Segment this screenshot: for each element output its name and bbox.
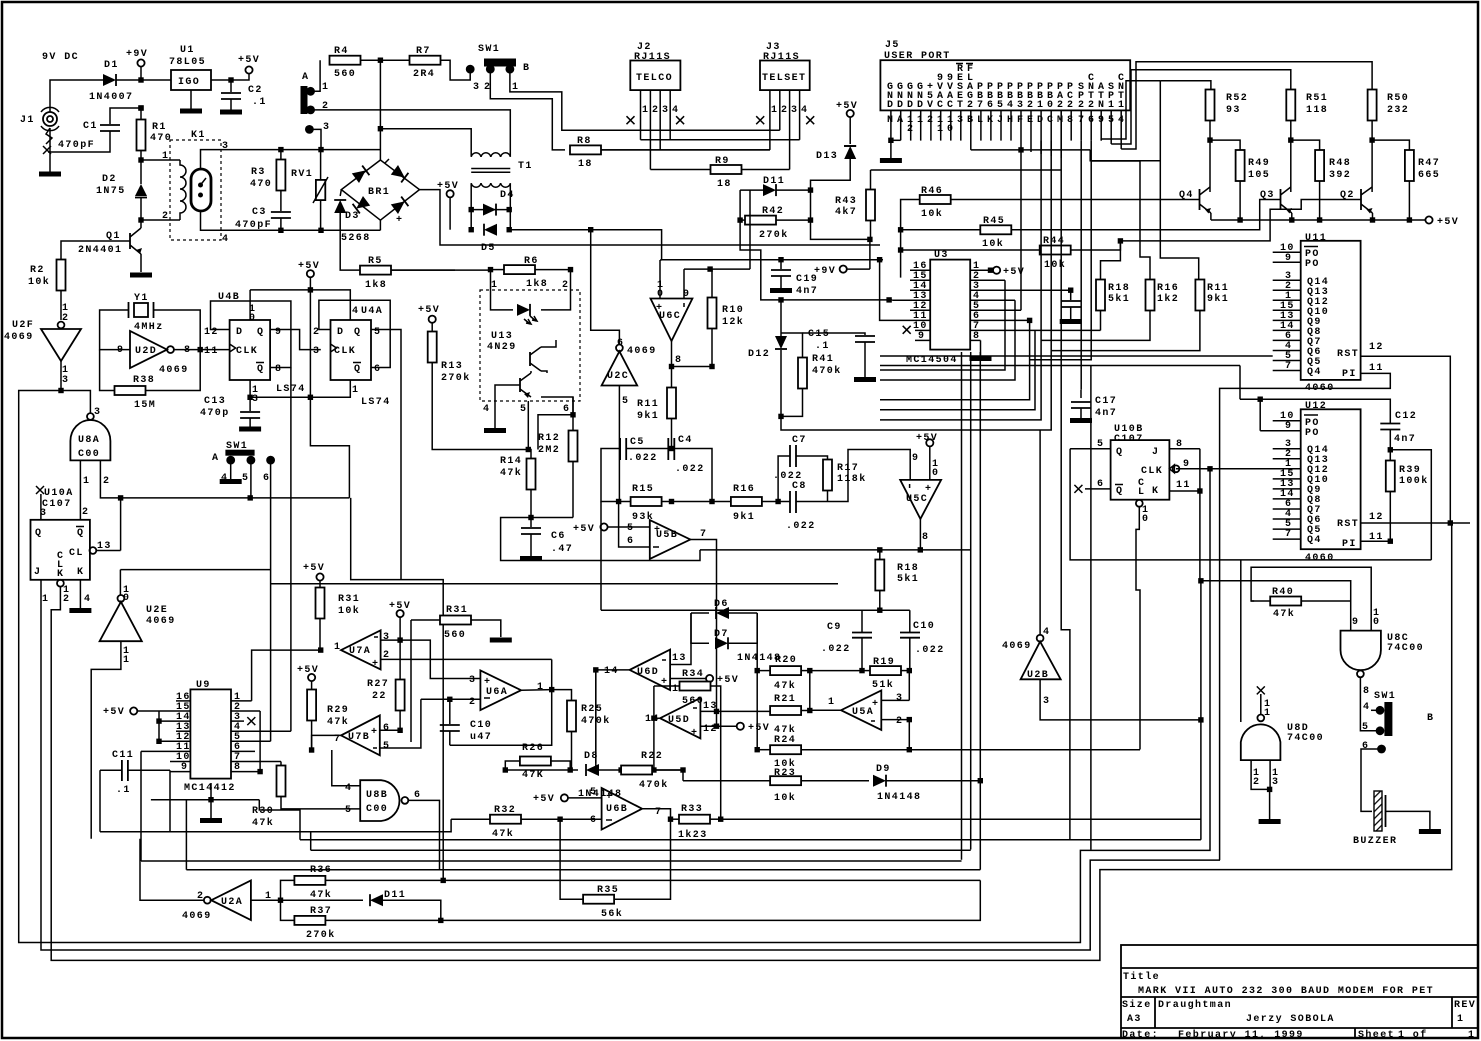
diode D1 — [89, 60, 133, 103]
U6D output — [596, 670, 630, 770]
svg-text:9: 9 — [1183, 459, 1190, 470]
capacitor C10 u47 — [440, 699, 492, 745]
U3 right pins — [970, 270, 1100, 340]
svg-text:470: 470 — [150, 133, 172, 144]
resistor R2 — [28, 260, 66, 321]
resistor R20 — [755, 613, 810, 692]
svg-text:CLK: CLK — [236, 346, 258, 357]
svg-text:2: 2 — [1057, 100, 1064, 111]
voltage regulator U1 78L05 — [169, 45, 211, 90]
U2A in wire — [251, 899, 281, 901]
svg-text:3: 3 — [222, 141, 229, 152]
svg-text:1: 1 — [42, 594, 49, 605]
diode D13 — [811, 117, 857, 190]
R22/R23 junction — [654, 770, 683, 781]
svg-text:.022: .022 — [821, 644, 851, 655]
svg-text:U2B: U2B — [1027, 670, 1049, 681]
junction D1 node to C1 — [138, 105, 143, 110]
nand U8C (points down) — [1341, 608, 1425, 697]
svg-text:C12: C12 — [1395, 411, 1417, 422]
svg-text:.022: .022 — [915, 645, 945, 656]
U9 pin8 junction — [257, 769, 262, 774]
filter row 610 — [601, 609, 910, 611]
svg-text:+5V: +5V — [418, 305, 440, 316]
svg-text:1N75: 1N75 — [96, 186, 126, 197]
svg-text:MC14412: MC14412 — [184, 783, 236, 794]
transistor Q3 — [1260, 140, 1292, 220]
svg-text:RST: RST — [1337, 349, 1359, 360]
svg-text:+5V: +5V — [573, 524, 595, 535]
U4A D-Qbar loop — [319, 300, 390, 367]
svg-text:2M2: 2M2 — [538, 445, 560, 456]
wire D5 row to U2C — [509, 229, 591, 231]
svg-text:1: 1 — [1118, 100, 1125, 111]
wire U2F out down — [60, 361, 62, 391]
U4B pin10 wire — [249, 290, 251, 320]
svg-text:22: 22 — [372, 691, 387, 702]
svg-text:Q: Q — [35, 528, 42, 539]
D12 bottom row — [781, 416, 880, 430]
wire to T1 primary — [380, 129, 471, 157]
U10B pin5 — [1070, 439, 1111, 450]
J5 bus wiring right — [971, 149, 1021, 151]
relay K1 coil — [180, 160, 186, 220]
diode D11 bottom — [281, 890, 444, 923]
svg-text:1: 1 — [334, 642, 341, 653]
U10A J/CLK bus verticals already drawn; add x20,x37.5 risers content above — [18, 390, 20, 392]
op-amp U6A — [469, 670, 544, 710]
svg-text:2: 2 — [967, 100, 974, 111]
node U2F out / U8A — [58, 388, 63, 393]
svg-text:4N29: 4N29 — [487, 342, 517, 353]
svg-text:U13: U13 — [491, 331, 513, 342]
svg-text:9: 9 — [117, 345, 124, 356]
bridge BR1 — [341, 159, 419, 226]
U10A pin1 J down (left bus) — [41, 580, 1220, 950]
svg-text:R16: R16 — [733, 484, 755, 495]
svg-text:1: 1 — [352, 385, 359, 396]
emitter rail +5V — [1211, 216, 1459, 228]
svg-text:R8: R8 — [577, 136, 592, 147]
svg-text:C7: C7 — [792, 435, 807, 446]
U2B out wire — [1040, 679, 1201, 720]
R37 row continue — [441, 880, 981, 920]
svg-text:1: 1 — [491, 280, 498, 291]
U10A CLK bubble pin12 — [51, 523, 1452, 960]
U13 LED — [517, 304, 537, 324]
svg-text:4n7: 4n7 — [796, 286, 818, 297]
junction D2 bottom — [138, 217, 143, 222]
resistor R22 — [621, 751, 683, 791]
U2B pin4 wire up — [1039, 430, 1041, 635]
flip-flop U4B — [204, 292, 282, 405]
svg-text:2: 2 — [1078, 100, 1085, 111]
svg-text:R9: R9 — [715, 156, 730, 167]
svg-text:8: 8 — [234, 762, 241, 773]
resistor R23 — [680, 767, 869, 804]
resistor R27 — [367, 640, 405, 730]
svg-text:L: L — [1138, 487, 1145, 498]
svg-text:U2E: U2E — [146, 605, 168, 616]
svg-text:8: 8 — [973, 331, 980, 342]
svg-text:PO: PO — [1305, 428, 1320, 439]
svg-text:1: 1 — [123, 655, 130, 666]
svg-text:A: A — [897, 115, 904, 126]
svg-text:3: 3 — [662, 105, 669, 116]
svg-text:1N4148: 1N4148 — [877, 792, 921, 803]
bus rows mid right — [880, 356, 1273, 399]
svg-text:C17: C17 — [1095, 396, 1117, 407]
U5B pin6 wire — [619, 502, 650, 548]
svg-text:8: 8 — [1176, 439, 1183, 450]
svg-text:2: 2 — [907, 124, 914, 135]
ground under U1 — [180, 90, 202, 111]
U9 pin3 nc — [247, 717, 255, 725]
svg-text:9: 9 — [918, 331, 925, 342]
+5V terminal R13 — [418, 305, 440, 323]
nc on J1 — [43, 146, 51, 154]
svg-text:2: 2 — [82, 507, 89, 518]
svg-text:C10: C10 — [470, 720, 492, 731]
oscillator loop wires — [100, 310, 130, 350]
svg-text:D: D — [907, 100, 914, 111]
svg-text:K: K — [987, 115, 994, 126]
R32 left wire — [100, 770, 451, 831]
node +9V junction — [138, 77, 143, 82]
diode D2 — [96, 160, 147, 220]
svg-text:1: 1 — [162, 151, 169, 162]
svg-text:9V DC: 9V DC — [42, 52, 79, 63]
svg-text:5: 5 — [997, 100, 1004, 111]
svg-text:R35: R35 — [597, 885, 619, 896]
svg-text:+: + — [606, 792, 613, 803]
op-amp U6B — [590, 787, 662, 830]
title block — [1121, 945, 1478, 1041]
U6C pin9 wire up — [684, 190, 750, 300]
svg-text:5: 5 — [627, 523, 634, 534]
SW1B pin2 dot — [484, 65, 495, 93]
svg-text:C: C — [937, 100, 944, 111]
+5V terminal U9 — [103, 707, 162, 744]
svg-text:D13: D13 — [816, 151, 838, 162]
svg-text:2: 2 — [896, 716, 903, 727]
diode D6 — [691, 599, 757, 619]
svg-text:15M: 15M — [134, 400, 156, 411]
svg-text:+5V: +5V — [748, 723, 770, 734]
vertical buses right — [1200, 581, 1202, 840]
diode D12 — [748, 297, 787, 416]
svg-text:9: 9 — [275, 327, 282, 338]
nand U8B — [345, 780, 421, 821]
resistor R18 5k1 b — [875, 547, 919, 610]
U13 pin4 ground — [483, 401, 506, 431]
svg-text:+: + — [872, 699, 879, 710]
svg-text:4069: 4069 — [146, 616, 176, 627]
C4 bottom tie — [674, 449, 712, 502]
svg-text:1: 1 — [1468, 1030, 1475, 1041]
svg-text:R42: R42 — [762, 206, 784, 217]
resistor R45 — [898, 216, 1011, 250]
svg-text:47k: 47k — [310, 889, 332, 901]
wire pin3 row to RV1 — [321, 149, 380, 151]
svg-text:CLK: CLK — [1141, 466, 1163, 477]
resistor R31 10k — [316, 581, 361, 651]
svg-text:100k: 100k — [1399, 475, 1429, 487]
svg-text:2: 2 — [562, 280, 569, 291]
svg-text:C8: C8 — [792, 481, 807, 492]
op-amp U5B — [627, 520, 707, 559]
svg-text:R4: R4 — [334, 46, 349, 57]
svg-text:D: D — [236, 327, 243, 338]
R43 top wire — [871, 169, 1062, 171]
wire Q1 base to R2 — [61, 241, 130, 259]
svg-text:.022: .022 — [675, 464, 705, 475]
diode D7 — [691, 613, 781, 664]
U13 pin6 wire — [563, 397, 576, 417]
+5V terminal U5B — [573, 523, 650, 535]
BR1 bottom wire — [379, 220, 381, 230]
svg-text:10k: 10k — [1044, 259, 1066, 271]
U8A pin1 wire — [79, 460, 81, 519]
svg-text:105: 105 — [1248, 170, 1270, 181]
SW1A pin6 — [263, 456, 275, 742]
U4A Q out down — [371, 330, 401, 580]
svg-text:7: 7 — [1078, 115, 1085, 126]
capacitor C15 — [803, 329, 877, 380]
svg-text:1: 1 — [1457, 1014, 1464, 1025]
vertical x380 R4 node down — [379, 60, 381, 129]
svg-text:10k: 10k — [921, 208, 943, 220]
svg-text:J: J — [34, 567, 41, 578]
svg-text:U6D: U6D — [637, 667, 659, 678]
inverter U2C — [591, 230, 657, 407]
svg-text:4: 4 — [1007, 100, 1014, 111]
svg-text:U12: U12 — [1305, 401, 1327, 412]
svg-text:D: D — [887, 100, 894, 111]
column 601 down — [600, 502, 602, 611]
svg-text:2R4: 2R4 — [413, 69, 435, 80]
svg-text:7: 7 — [977, 100, 984, 111]
svg-text:470: 470 — [250, 179, 272, 190]
svg-text:+5V: +5V — [297, 665, 319, 676]
svg-text:D6: D6 — [714, 599, 729, 610]
resistor R18 5k1 — [1096, 238, 1130, 330]
capacitor C3 — [235, 207, 291, 233]
svg-text:R7: R7 — [416, 46, 431, 57]
decoupling cap U3 — [1060, 288, 1082, 322]
svg-text:N: N — [887, 115, 894, 126]
junction R14 bottom — [528, 515, 533, 520]
U6C out down — [671, 341, 673, 388]
svg-text:U2D: U2D — [135, 346, 157, 357]
svg-text:R1: R1 — [152, 122, 167, 133]
svg-text:D2: D2 — [102, 174, 117, 185]
U10A K pin4 ground — [69, 580, 91, 611]
R5 wire right — [391, 269, 491, 271]
resistor R47 — [1372, 140, 1440, 220]
svg-text:2: 2 — [1253, 777, 1260, 788]
capacitor C7 — [773, 435, 828, 502]
resistor R44 — [898, 236, 1121, 271]
svg-text:51k: 51k — [872, 679, 894, 691]
resistor R38 — [100, 350, 201, 411]
wire CL vertical to U2E — [120, 498, 122, 551]
U9 left pins — [141, 701, 190, 772]
svg-text:C00: C00 — [366, 804, 388, 815]
svg-text:7: 7 — [1285, 361, 1292, 372]
U8A pin2 wire — [100, 460, 120, 498]
svg-text:6: 6 — [414, 790, 421, 801]
resistor R26 — [505, 743, 570, 781]
R17/C8 node to U5C — [828, 450, 911, 502]
svg-text:R24: R24 — [774, 735, 796, 746]
connector J1 — [20, 107, 59, 144]
C10 bottom tie — [450, 690, 552, 746]
svg-text:47k: 47k — [774, 680, 796, 692]
svg-text:+5V: +5V — [916, 433, 938, 444]
svg-text:5: 5 — [590, 787, 597, 798]
svg-text:3: 3 — [1272, 777, 1279, 788]
op-amp U5C — [900, 453, 941, 543]
svg-text:6: 6 — [1097, 479, 1104, 490]
svg-text:12: 12 — [1369, 342, 1384, 353]
svg-text:6: 6 — [987, 100, 994, 111]
svg-text:4MHz: 4MHz — [134, 322, 164, 333]
inverter U2A (points left) — [182, 881, 272, 923]
svg-text:.022: .022 — [786, 521, 816, 532]
junction at C2 — [228, 77, 233, 82]
U8D nc out — [1257, 686, 1272, 719]
svg-text:R51: R51 — [1306, 93, 1328, 104]
svg-text:CLK: CLK — [334, 346, 356, 357]
svg-text:F: F — [1017, 115, 1024, 126]
svg-text:E: E — [1027, 115, 1034, 126]
U10A labels — [36, 486, 74, 520]
svg-text:U7A: U7A — [349, 646, 371, 657]
wire J1 to D1 — [50, 80, 104, 112]
svg-text:470pF: 470pF — [58, 140, 95, 151]
svg-text:R34: R34 — [682, 669, 704, 680]
svg-text:9k1: 9k1 — [733, 511, 755, 523]
U3 left pins — [892, 270, 930, 340]
svg-text:K: K — [1152, 486, 1159, 497]
svg-text:K: K — [77, 567, 84, 578]
SW1B2 pin6 dot — [1362, 741, 1386, 753]
svg-text:B: B — [523, 63, 530, 74]
svg-text:9: 9 — [1285, 421, 1292, 432]
svg-text:D8: D8 — [584, 751, 599, 762]
svg-text:R10: R10 — [722, 305, 744, 316]
svg-text:1k2: 1k2 — [1157, 293, 1179, 305]
wire D1 to U1 — [116, 79, 171, 81]
svg-text:4: 4 — [801, 105, 808, 116]
svg-text:4069: 4069 — [182, 911, 212, 922]
svg-text:R5: R5 — [368, 256, 383, 267]
svg-text:1k8: 1k8 — [526, 278, 548, 290]
ground J1 — [39, 128, 61, 174]
U11 pins — [1273, 252, 1301, 370]
svg-text:RJ11S: RJ11S — [634, 52, 671, 63]
resistor R13 — [428, 323, 529, 450]
svg-text:C00: C00 — [78, 449, 100, 460]
resistor R37 — [281, 900, 441, 941]
svg-text:N: N — [1098, 100, 1105, 111]
U9 pin1 wire to U7A — [252, 650, 321, 701]
svg-text:5: 5 — [1362, 722, 1369, 733]
U3 pin1 +5V — [988, 267, 1025, 278]
svg-text:11: 11 — [1369, 363, 1384, 374]
switch SW1 A lower — [212, 441, 255, 464]
connector J3 RJ11S — [760, 42, 810, 90]
U5D pin12 — [700, 711, 770, 734]
diode D11 — [740, 176, 810, 196]
capacitor C12 — [1380, 411, 1417, 450]
svg-text:.1: .1 — [815, 341, 830, 352]
ground Q1 — [130, 274, 152, 276]
svg-text:5: 5 — [345, 805, 352, 816]
resistor R33 — [671, 804, 1201, 841]
resistor R16 1k2 — [1041, 161, 1179, 340]
SW1B2 pin5 dot — [1362, 722, 1384, 735]
relay pin3 wire — [201, 150, 322, 169]
svg-text:3: 3 — [1043, 696, 1050, 707]
svg-text:6: 6 — [383, 723, 390, 734]
svg-text:Q: Q — [1116, 486, 1123, 497]
resistor R25 — [567, 701, 611, 771]
relay K1 reed contact — [191, 169, 211, 211]
svg-text:4: 4 — [221, 473, 228, 484]
junction R1 bottom — [138, 157, 143, 162]
svg-text:8: 8 — [922, 532, 929, 543]
U5D pin13 — [700, 710, 716, 712]
svg-text:18: 18 — [717, 179, 732, 190]
svg-text:U8A: U8A — [78, 435, 100, 446]
U2E out wire — [91, 641, 121, 839]
svg-text:74C00: 74C00 — [1287, 733, 1324, 744]
svg-text:5: 5 — [374, 327, 381, 338]
svg-text:H: H — [1007, 115, 1014, 126]
svg-text:R6: R6 — [524, 256, 539, 267]
svg-text:U6B: U6B — [606, 804, 628, 815]
svg-text:4069: 4069 — [627, 346, 657, 357]
svg-text:U2F: U2F — [12, 320, 34, 331]
capacitor C10 .022 — [900, 610, 945, 670]
wire U2E input row — [120, 569, 270, 571]
op-amp U7A (points left) — [334, 630, 390, 670]
svg-text:270k: 270k — [441, 372, 471, 384]
svg-text:3: 3 — [896, 693, 903, 704]
SW1A pin2 — [306, 101, 510, 157]
svg-text:9: 9 — [1098, 115, 1105, 126]
svg-text:4069: 4069 — [4, 332, 34, 343]
svg-text:93: 93 — [1226, 105, 1241, 116]
U13 pin1 wire — [491, 270, 514, 310]
svg-text:2: 2 — [1088, 100, 1095, 111]
+5V terminal U5C — [916, 433, 938, 480]
svg-text:47k: 47k — [500, 467, 522, 479]
resistor R51 — [1286, 90, 1328, 141]
resistor R30 — [252, 762, 360, 830]
+5V terminal U6B — [533, 794, 602, 805]
svg-text:2: 2 — [322, 101, 329, 112]
svg-text:.1: .1 — [116, 785, 131, 796]
svg-text:3: 3 — [94, 407, 101, 418]
svg-text:R31: R31 — [338, 594, 360, 605]
bus row to U12 — [1240, 399, 1390, 423]
svg-text:47k: 47k — [492, 828, 514, 840]
inverter U2B — [1002, 627, 1061, 707]
svg-text:0: 0 — [1373, 617, 1380, 628]
